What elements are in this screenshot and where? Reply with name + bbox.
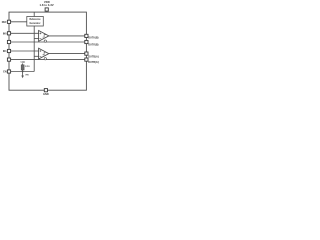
svg-text:REF: REF bbox=[2, 21, 7, 24]
comparator U2 bbox=[39, 31, 49, 42]
svg-text:IN0: IN0 bbox=[3, 32, 7, 35]
wire U1 top to rail bbox=[33, 12, 35, 16]
wire ref tap to U2- bbox=[34, 38, 38, 40]
pin IN1 bbox=[7, 49, 10, 52]
pin B bbox=[7, 40, 10, 43]
svg-text:R PU: R PU bbox=[25, 66, 30, 68]
node dot bbox=[22, 71, 24, 73]
pin EN bbox=[7, 70, 10, 73]
resistor R1 bbox=[21, 65, 24, 70]
wire U3 out to pin OUTB bbox=[49, 53, 87, 55]
svg-text:OUTA(B): OUTA(B) bbox=[88, 37, 99, 40]
pin OUTA bbox=[85, 34, 88, 37]
wire pin REF to U1 bbox=[9, 21, 27, 23]
pin R2 bbox=[85, 40, 88, 43]
bubble U3 out-bar bbox=[44, 58, 46, 60]
wire U2 out to pin OUTA bbox=[49, 35, 87, 37]
svg-text:OUTB(A): OUTB(A) bbox=[88, 56, 99, 59]
svg-text:OUTB(A): OUTB(A) bbox=[88, 61, 99, 64]
pin R4 bbox=[85, 58, 88, 61]
wire VDD stub bbox=[46, 11, 48, 12]
svg-text:1.8 to 3.3V: 1.8 to 3.3V bbox=[39, 3, 53, 7]
svg-text:Generator: Generator bbox=[30, 22, 41, 25]
minus in U2 bbox=[40, 38, 42, 40]
hysteresis glyph U3 bbox=[43, 52, 46, 54]
wire OUTB-bar across bbox=[9, 59, 86, 61]
pin GND bbox=[44, 89, 47, 92]
svg-text:I PD: I PD bbox=[25, 75, 29, 77]
wire vdd to resistor bbox=[22, 63, 24, 64]
bubble U2 out-bar bbox=[44, 40, 46, 42]
wire EN to ref vertical bbox=[9, 71, 34, 73]
plus in U3 bbox=[40, 50, 42, 52]
current sink arrow bbox=[21, 76, 24, 79]
wire reference vertical bbox=[33, 26, 35, 72]
plus in U2 bbox=[40, 32, 42, 34]
package outline bbox=[9, 12, 86, 90]
reference generator U1 bbox=[27, 17, 44, 27]
pin IN0 bbox=[7, 32, 10, 35]
svg-text:EN: EN bbox=[3, 71, 7, 74]
current sink wire bbox=[22, 72, 24, 77]
wire ref tap to U3- bbox=[34, 55, 38, 57]
svg-text:OUTA(B): OUTA(B) bbox=[88, 43, 99, 46]
pin D bbox=[7, 58, 10, 61]
wire IN0 to U2+ bbox=[9, 32, 39, 34]
wire IN1 to U3+ bbox=[9, 50, 39, 52]
svg-text:GND: GND bbox=[43, 92, 49, 96]
pin REF bbox=[7, 20, 10, 23]
wire OUTA-bar across bbox=[9, 41, 86, 43]
svg-text:IN1: IN1 bbox=[3, 50, 7, 53]
wire resistor to node bbox=[22, 70, 24, 72]
comparator U3 bbox=[39, 48, 49, 59]
hysteresis glyph U2 bbox=[43, 35, 46, 37]
pin OUTB bbox=[85, 52, 88, 55]
svg-text:Reference: Reference bbox=[29, 19, 41, 21]
pin VDD bbox=[45, 8, 48, 11]
minus in U3 bbox=[40, 55, 42, 57]
